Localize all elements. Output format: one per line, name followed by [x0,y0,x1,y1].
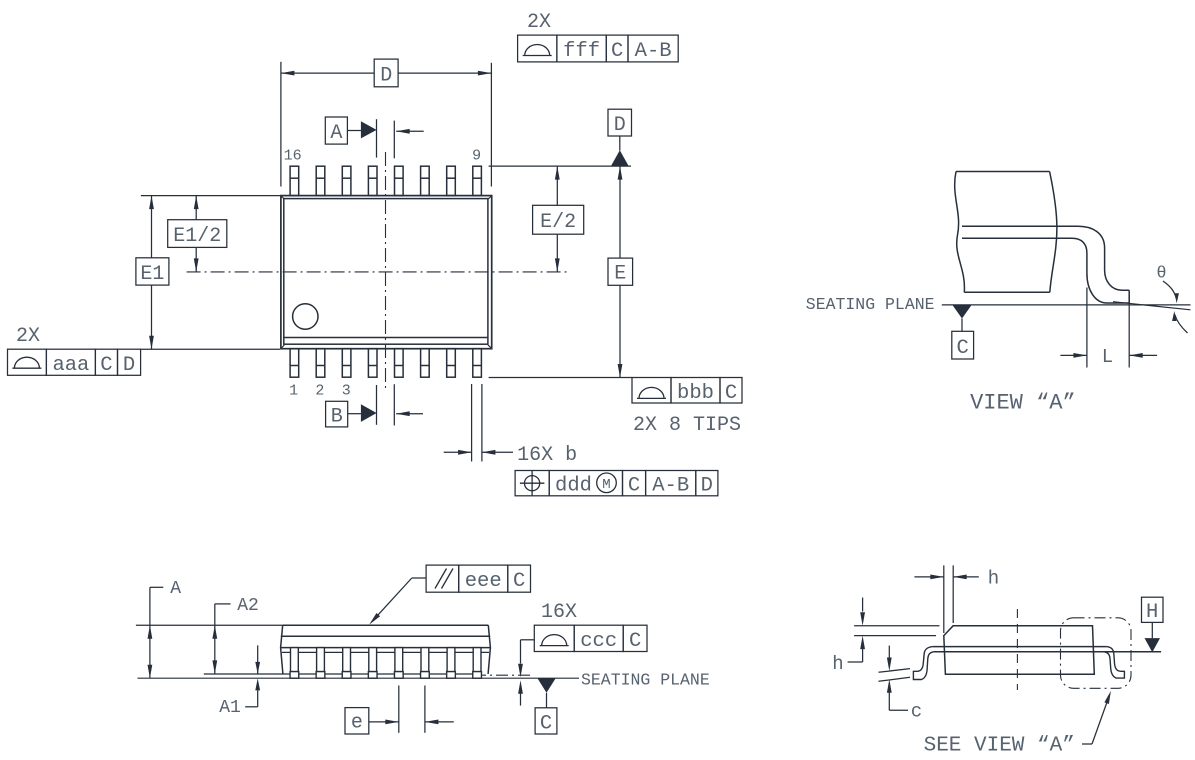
side view: lead 4 [368,648,377,679]
svg-text:c: c [911,701,922,723]
svg-text:L: L [1102,346,1113,368]
seating plane label (side view) [581,670,710,689]
dimension e [345,708,454,735]
dimension A [148,579,182,678]
top view: pin 12 (top row) [395,166,404,195]
dimension h (top) extension lines [944,565,953,633]
FCF eee leader arrow [369,578,426,625]
side view: body top line [283,624,489,626]
top view: pin 9 (top row) [473,166,482,195]
dimension D extension lines [281,62,492,187]
svg-text:eee: eee [465,570,502,593]
top view: pin number 2 [315,383,324,400]
datum C (side view) [535,678,557,735]
top view: pin 13 (top row) [368,166,377,195]
svg-text:C: C [957,337,969,360]
top view: horizontal centerline [187,271,570,273]
datum A [325,117,423,158]
svg-text:C: C [725,382,737,405]
svg-text:C: C [628,474,640,497]
side view: lead 1 [290,648,299,679]
side view: body right edge [488,625,490,674]
view A: lead inner profile [962,238,1129,303]
svg-text:fff: fff [563,40,600,63]
svg-text:16X b: 16X b [517,444,577,467]
top view: pin number 1 [289,383,298,400]
side view: lead 6 [421,648,430,679]
note 16X (ccc frame) [541,601,577,624]
side view: body left edge [281,625,283,674]
dimension h (top) [914,568,999,590]
svg-text:16: 16 [284,148,302,165]
dimension E1/2 [168,196,227,272]
view A title [970,391,1076,416]
left reference line (top of body) [141,195,281,197]
note 2X (fff frame) [527,11,551,34]
svg-text:A: A [170,579,181,599]
side view: body lower gap line [282,651,489,653]
dimension h (left) extension lines [854,626,939,636]
view A: seating plane line [942,304,1191,306]
top view: pin 5 (bottom row) [395,349,404,378]
end view: left lead [913,647,933,680]
svg-text:aaa: aaa [52,354,89,377]
top view: pin 11 (top row) [421,166,430,195]
svg-text:E1/2: E1/2 [173,225,221,248]
end view: centerline [1016,609,1018,690]
dimension A ext line (package top) [136,624,283,626]
svg-text:1: 1 [289,383,298,400]
side view: seating plane line [138,677,580,679]
svg-text:D: D [123,354,135,377]
svg-text:2X: 2X [16,325,40,348]
datum D [608,109,632,165]
dimension L extension lines [1087,288,1129,368]
side view: package bottom line [204,674,531,675]
view A: body bottom edge [964,291,1050,293]
dimension E/2 [533,166,584,272]
svg-text:E1: E1 [140,263,164,286]
top view: pin 1 (bottom row) [290,349,299,378]
svg-text:A-B: A-B [635,40,672,63]
end view: right lead [1104,647,1124,679]
top view: package body inner outline [284,199,488,345]
datum B [326,384,423,428]
svg-text:D: D [614,114,626,137]
FCF bbb frame [632,378,742,405]
FCF eee frame [426,565,530,593]
top reference line (lead tips, top row) [489,165,631,167]
end view: body outline [944,626,1095,675]
top view: pin 6 (bottom row) [421,349,430,378]
dimension c extension lines [879,669,911,682]
dimension 16X b [444,444,577,467]
svg-text:SEATING PLANE: SEATING PLANE [581,670,710,689]
svg-text:bbb: bbb [677,382,714,405]
datum C (view A) [952,305,974,360]
dimension b extension lines [472,384,482,462]
bottom reference line (lead tips, bottom row) [489,377,632,379]
svg-text:M: M [602,477,610,493]
dimension L [1060,346,1157,368]
top view: pin 7 (bottom row) [447,349,456,378]
svg-text:SEE VIEW “A”: SEE VIEW “A” [924,735,1075,758]
top view: pin 15 (top row) [316,166,325,195]
top view: pin 14 (top row) [342,166,351,195]
side view: lead shoulder line [281,647,491,649]
top view: body corner chamfers [281,196,491,348]
svg-text:C: C [540,712,552,735]
svg-text:16X: 16X [541,601,577,624]
dimension e extension lines [399,686,425,733]
side view: lead 2 [316,648,325,679]
FCF aaa frame [8,349,281,377]
dimension theta [1156,265,1187,334]
svg-text:C: C [513,570,525,593]
top view: pin number 9 [472,148,481,165]
FCF fff frame [518,35,679,63]
view A: foot plane line (theta) [1113,302,1191,310]
svg-text:2X 8 TIPS: 2X 8 TIPS [633,414,741,437]
side view: body parting line [281,635,490,637]
view A: lead tip cap [1128,290,1130,303]
svg-text:2X: 2X [527,11,551,34]
view A: body top edge [956,171,1050,173]
svg-text:E: E [614,263,626,286]
end view: upper lead line [933,646,1107,648]
view A: body right edge [1050,172,1057,293]
top view: body bottom edge line [284,337,488,339]
top view: pin 1 index circle [293,304,318,329]
top view: package body outer outline [281,196,492,349]
dimension E1 [136,196,169,350]
svg-text:3: 3 [342,383,351,400]
svg-text:A1: A1 [219,698,241,718]
dimension E [608,166,633,377]
end view: lower lead line / datum line [934,651,1162,653]
FCF ccc leader and tolerance zone arrows [518,640,534,706]
svg-text:θ: θ [1156,265,1166,284]
svg-text:A-B: A-B [652,474,689,497]
svg-text:9: 9 [472,148,481,165]
top view: pin 8 (bottom row) [473,349,482,378]
svg-text:C: C [629,630,641,653]
note 2X 8 TIPS [633,414,741,437]
top view: pin 16 (top row) [290,166,299,195]
svg-text:A: A [330,122,342,145]
FCF ddd frame [515,471,718,498]
svg-text:B: B [331,406,343,429]
view A: body left break line [955,172,965,293]
svg-text:D: D [380,64,392,87]
top view: pin 3 (bottom row) [342,349,351,378]
svg-text:H: H [1146,601,1158,624]
note 2X (aaa frame) [16,325,40,348]
svg-text:e: e [351,711,363,734]
svg-text:h: h [832,653,843,675]
dimension D [281,59,492,87]
dimension A2 [212,596,258,674]
datum H [1142,597,1164,652]
view A: seating plane label [806,295,935,314]
see view A note [924,691,1111,758]
svg-text:C: C [611,40,623,63]
svg-text:ddd: ddd [555,474,592,497]
svg-text:h: h [988,568,999,590]
svg-text:D: D [701,474,713,497]
top view: pin number 16 [284,148,302,165]
side view: lead 7 [447,648,456,679]
top view: pin 10 (top row) [447,166,456,195]
top view: vertical centerline [385,152,387,392]
svg-text:C: C [100,354,112,377]
dimension A1 [219,645,260,718]
svg-text:2: 2 [315,383,324,400]
side view: lead 5 [394,648,403,679]
end view: detail boundary (rounded rect) [1061,618,1132,689]
view A: lead outer profile [962,226,1129,290]
svg-text:SEATING PLANE: SEATING PLANE [806,295,935,314]
svg-text:VIEW “A”: VIEW “A” [970,391,1076,416]
dimension c [887,646,922,723]
svg-text:ccc: ccc [580,630,617,653]
svg-text:E/2: E/2 [540,211,576,234]
top view: pin 2 (bottom row) [316,349,325,378]
side view: lead 3 [342,648,351,679]
top view: pin number 3 [342,383,351,400]
svg-text:A2: A2 [237,596,259,616]
top view: pin 4 (bottom row) [368,349,377,378]
FCF ccc frame [534,625,647,653]
side view: lead 8 [473,648,482,679]
dimension h (left) [832,598,865,675]
